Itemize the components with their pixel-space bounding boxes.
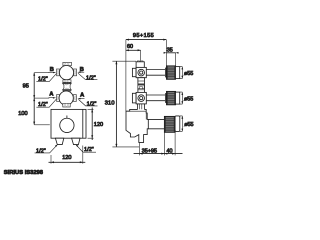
valve block A (side)	[132, 92, 146, 104]
label A left	[49, 92, 57, 99]
mixer knob index tick	[66, 116, 68, 119]
bottom dimension 35+95 / 40	[134, 132, 183, 155]
label 1/2" bottom-left	[35, 144, 58, 154]
coupling pipe between valve B and valve A	[63, 80, 72, 92]
bottom-right outlet trapezoid	[72, 138, 80, 144]
neck below block A (side)	[138, 104, 145, 111]
svg-text:310: 310	[105, 101, 115, 107]
shaft A (side)	[146, 93, 166, 102]
svg-text:A: A	[49, 92, 53, 98]
extension line mixer row	[34, 124, 50, 126]
label 1/2" upper-left	[36, 74, 56, 83]
valve block B (side)	[132, 67, 146, 77]
valve A right fitting	[73, 95, 76, 102]
svg-text:SIRIUS IS3298: SIRIUS IS3298	[4, 170, 43, 176]
svg-text:120: 120	[62, 155, 71, 161]
fitting below valve A	[63, 104, 70, 107]
knurled knob A	[167, 91, 180, 104]
label B right	[77, 67, 84, 73]
big block (mixer body, side)	[126, 109, 148, 142]
mixer knob circle	[60, 118, 74, 132]
side body top cap	[136, 61, 144, 68]
diameter dim knob A	[180, 92, 194, 104]
svg-text:1/2": 1/2"	[86, 76, 96, 82]
knurled knob mixer	[164, 116, 179, 132]
valve A body circle	[59, 91, 73, 105]
bottom dimension 120	[49, 146, 86, 164]
label 1/2" mid-right	[78, 99, 97, 107]
coupling between blocks (side)	[138, 78, 145, 93]
valve B left fitting	[57, 69, 60, 76]
extension line row B	[34, 72, 49, 74]
svg-text:ø55: ø55	[184, 122, 193, 128]
svg-text:35: 35	[167, 47, 173, 53]
svg-text:ø55: ø55	[184, 71, 193, 77]
extension line row A	[34, 97, 49, 99]
svg-text:95: 95	[23, 84, 29, 90]
svg-text:1/2": 1/2"	[87, 101, 97, 107]
svg-text:60: 60	[127, 44, 133, 50]
svg-text:35+95: 35+95	[142, 148, 157, 154]
dimension 35	[164, 40, 179, 66]
dimension 60	[126, 44, 141, 61]
right dimension 120 (vertical)	[88, 108, 104, 141]
dimension 310 vertical line	[112, 61, 139, 147]
label 1/2" mid-left	[36, 99, 56, 108]
svg-text:40: 40	[167, 148, 173, 154]
label B left	[49, 67, 57, 73]
diameter dim knob B	[180, 67, 194, 79]
valve B right fitting	[74, 69, 77, 76]
label 1/2" upper-right	[78, 73, 97, 82]
square mixer body	[51, 109, 86, 138]
dimension 95+155	[126, 33, 166, 41]
svg-text:1/2": 1/2"	[36, 148, 46, 154]
shaft mixer (side)	[148, 119, 164, 128]
knurled knob B	[167, 66, 180, 79]
left dimension line (95 / 100)	[33, 73, 35, 125]
valve B body circle	[59, 66, 73, 80]
svg-text:A: A	[80, 93, 84, 99]
bottom-left outlet trapezoid	[55, 138, 63, 144]
svg-text:120: 120	[94, 122, 103, 128]
shaft B (side)	[146, 68, 166, 77]
diameter dim knob mixer	[180, 116, 194, 131]
valve B top fitting	[63, 62, 72, 65]
label A right	[78, 93, 85, 100]
svg-text:100: 100	[18, 111, 27, 117]
valve A left fitting	[57, 95, 60, 102]
svg-text:95+155: 95+155	[133, 33, 154, 39]
long extension line left plane of body	[125, 40, 127, 112]
label 1/2" bottom-right	[75, 144, 96, 153]
svg-text:ø55: ø55	[184, 96, 193, 102]
